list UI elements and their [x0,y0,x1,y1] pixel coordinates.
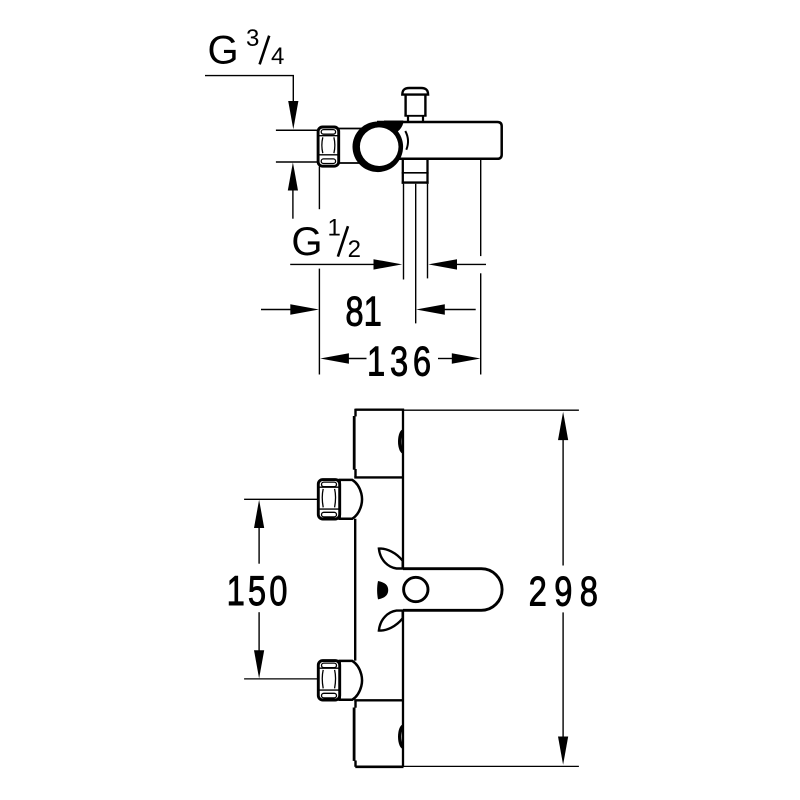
small arc on body right of handle [405,131,408,150]
thermostat handle (circle, top view) [353,122,404,173]
label G 1/2 [291,215,361,265]
svg-text:G: G [208,29,239,73]
81 right arrow [416,304,476,314]
fillet between handle and body top line [384,121,403,132]
column right edge (upper) [402,409,404,569]
diverter knob stem [404,95,426,116]
svg-text:150: 150 [227,567,291,614]
inlet pipe bottom line [276,161,319,163]
inlet pipe top line [276,129,319,131]
mixer body (top view) [377,122,502,159]
hose outline lines below outlet [404,184,428,280]
body bottom edge [355,765,403,768]
298 dimension line upper with up arrow [558,412,568,566]
column left edge between nuts [354,519,356,661]
svg-text:2: 2 [348,236,361,263]
right extension line (136 dim) [480,160,482,375]
svg-text:3: 3 [246,25,259,52]
svg-text:81: 81 [345,288,381,335]
136 right arrow [438,353,481,363]
81 left arrow [261,304,319,314]
leader arrow (down) [288,101,298,129]
top block left bulge [353,416,356,470]
upper spout fillet leaf [379,549,403,569]
150 lower extension line [244,678,318,680]
svg-text:136: 136 [367,338,436,385]
svg-text:G: G [291,220,322,264]
150 dimension line upper with up arrow [254,500,264,564]
bottom block top edge [354,699,403,701]
leader line from G 3/4 label [205,76,293,102]
298 dimension line lower with down arrow [558,612,568,764]
top block left edge [354,409,356,417]
bath spout [403,569,502,611]
G 1/2 dimension line (left part with right-pointing arrow) [290,259,402,269]
150 dimension line lower with down arrow [254,612,264,678]
column right edge (lower) [402,611,404,767]
298 top extension line [403,409,579,411]
diverter knob cap [402,88,428,95]
outlet centre extension line [415,184,417,324]
left extension line (wall plane) [318,167,320,375]
union nut (top view) [318,127,339,166]
lower spout fillet leaf [379,611,403,631]
shower outlet block (top view) [402,159,429,184]
svg-text:298: 298 [529,567,606,614]
connector between nut and handle [339,129,363,164]
top block left edge lower [354,469,356,477]
diverter knob neck [408,116,423,122]
lower hose hole mark [398,724,403,749]
bottom block left edge lower [354,761,356,767]
150 upper extension line [244,498,318,500]
G 1/2 dimension line (right part with left-pointing arrow) [428,259,486,269]
label G 3/4 [208,25,285,73]
top block bottom edge [354,476,403,478]
bottom block left edge [354,700,356,707]
bottom block left bulge [353,708,356,761]
temperature marker blob [377,581,388,599]
upper hose hole mark [398,429,403,453]
arrow up to pipe bottom [288,162,298,218]
svg-text:1: 1 [328,215,341,242]
lower union nut (front view) [318,661,362,700]
136 left arrow [320,353,366,363]
upper union nut (front view) [318,480,362,519]
svg-text:4: 4 [271,43,284,70]
body top edge [355,409,403,411]
diverter circle on spout [404,577,428,601]
298 bottom extension line [404,765,579,767]
